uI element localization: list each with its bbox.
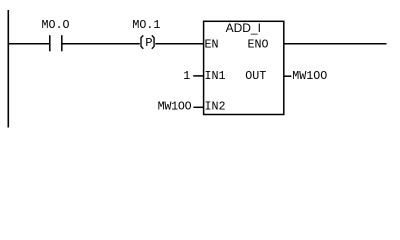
left power rail [7,10,9,128]
svg-text:OUT: OUT [245,69,266,83]
wire stub IN2 [193,106,203,108]
svg-text:ENO: ENO [248,38,269,52]
svg-text:IN1: IN1 [205,69,226,83]
block ADD_I box [204,21,284,114]
svg-text:MO.O: MO.O [42,18,70,32]
svg-text:MO.1: MO.1 [132,18,160,32]
wire stub OUT [284,75,292,77]
wire ENO output [284,43,387,45]
wire stub IN1 [193,75,203,77]
wire rail to contact M0.0 [8,43,50,45]
contact M0.0 left bar [49,35,51,51]
wire contact M0.0 to contact M0.1 [62,43,140,45]
svg-text:MW1OO: MW1OO [158,99,192,113]
svg-text:MW1OO: MW1OO [292,69,327,83]
svg-text:1: 1 [183,69,190,83]
contact M0.0 right bar [61,35,63,51]
svg-text:ADD_I: ADD_I [226,21,261,35]
svg-text:P: P [145,36,152,50]
svg-text:EN: EN [205,38,219,52]
contact M0.1 (P) left paren [141,35,143,48]
contact M0.1 (P) right paren [152,35,154,48]
wire contact M0.1 to block ADD_I [155,43,203,45]
svg-text:IN2: IN2 [205,99,226,113]
